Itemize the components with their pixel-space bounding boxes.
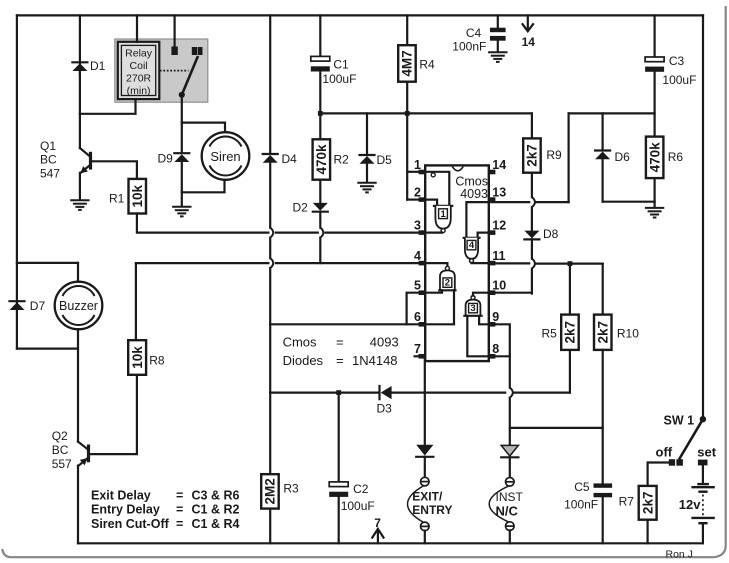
svg-text:10k: 10k [130, 346, 145, 369]
svg-text:2M2: 2M2 [263, 478, 278, 504]
svg-text:2k7: 2k7 [596, 321, 611, 344]
wire inst bottom [509, 530, 511, 543]
wire INST vertical below hop [509, 398, 511, 445]
svg-text:=: = [176, 503, 183, 517]
svg-text:C4: C4 [466, 26, 482, 40]
wire pin11 line [489, 262, 529, 264]
svg-text:D5: D5 [377, 153, 393, 167]
wire R10 top [602, 264, 604, 315]
wire right bus corner down to pin13 line [567, 113, 569, 202]
svg-text:1: 1 [414, 158, 421, 172]
svg-text:100uF: 100uF [662, 73, 696, 87]
svg-text:Siren Cut-Off: Siren Cut-Off [91, 517, 170, 531]
wire R9 bottom to hop [531, 173, 533, 197]
ground under D9 [172, 207, 191, 217]
resistor R9 box [523, 138, 541, 172]
svg-text:9: 9 [492, 310, 499, 324]
svg-text:R5: R5 [542, 326, 558, 340]
relay actuator dotted link [160, 70, 189, 72]
svg-text:D9: D9 [158, 151, 174, 165]
svg-text:Coil: Coil [130, 60, 148, 72]
svg-text:Buzzer: Buzzer [59, 299, 98, 313]
wire C1 feed [319, 15, 321, 56]
ground under Q1 [70, 200, 89, 210]
wire D2 hop to pin4 line [319, 238, 321, 264]
pin14 supply arrow [527, 15, 529, 29]
capacitor C3 [645, 57, 664, 62]
junction dot C2 top [336, 390, 341, 395]
off contact squares [669, 459, 675, 466]
bus line top y113 left [320, 112, 532, 114]
wire R5 bottom [569, 350, 571, 393]
svg-text:3: 3 [470, 303, 475, 314]
svg-text:6: 6 [414, 310, 421, 324]
wire left rail bottom corner to buzzer bottom [17, 329, 78, 348]
svg-text:set: set [697, 444, 716, 459]
svg-text:4093: 4093 [370, 334, 399, 349]
wire pin4 line from R8 corner [135, 263, 137, 340]
supply rail vertical x270 top [269, 15, 271, 153]
resistor R3 box [261, 474, 279, 508]
wire C3 feed [653, 15, 655, 57]
ground under D5 [357, 183, 376, 193]
svg-text:Q1: Q1 [40, 139, 56, 153]
svg-text:BC: BC [40, 153, 57, 167]
wire R6 bottom to ground [653, 178, 655, 207]
resistor R8 box [128, 340, 146, 375]
svg-text:13: 13 [492, 185, 506, 199]
wire coil bottom to Q1 collector [80, 99, 136, 113]
rail vertical D4 to hop1 [269, 163, 271, 228]
wire D8 down to hop over pin11 line [531, 239, 533, 258]
wire siren top link [182, 123, 225, 132]
svg-text:2k7: 2k7 [640, 492, 655, 515]
wire pin3 line segment right of rail hop [276, 232, 318, 234]
capacitor C5 [594, 483, 613, 487]
wire D5 branch [366, 113, 368, 154]
gate3 output wire to pin10 [473, 293, 489, 296]
terminal top exit [421, 477, 430, 486]
resistor R1 box [129, 179, 147, 214]
svg-text:D2: D2 [293, 201, 309, 215]
wire pin10 line [489, 292, 532, 294]
wire pin13 line [489, 201, 529, 203]
svg-text:off: off [656, 444, 673, 459]
wire pin5/pin6 bracket [407, 293, 419, 325]
relay n/c contact pair squares [192, 47, 198, 55]
svg-text:2: 2 [414, 185, 421, 199]
svg-text:10k: 10k [130, 184, 145, 207]
junction dot R5 top [568, 261, 573, 266]
pin 1 stub [419, 170, 426, 175]
diode D1 [72, 62, 87, 75]
svg-text:(min): (min) [127, 85, 151, 97]
gate1 output wire to pin3 [425, 232, 442, 234]
diode D8 [524, 231, 539, 240]
resistor R6 box [646, 137, 664, 179]
svg-text:R10: R10 [617, 326, 639, 340]
svg-text:470k: 470k [647, 142, 662, 173]
pin 7 stub [419, 354, 426, 359]
wire R7 bottom [646, 520, 648, 544]
pin 3 stub [419, 230, 426, 235]
wire bracket to pin2 [407, 199, 418, 201]
gate3 input wire from pin8 [467, 316, 489, 357]
svg-text:4093: 4093 [460, 187, 488, 201]
capacitor C1 [311, 56, 330, 61]
ground under C4 [488, 52, 507, 62]
svg-text:Diodes: Diodes [283, 353, 324, 368]
gate4 input wire from pin12 [478, 233, 489, 238]
diode inst (gray) [501, 445, 518, 457]
svg-text:C3 & R6: C3 & R6 [192, 488, 240, 502]
wire R4 feed [406, 15, 408, 45]
wire hop to D8 [531, 207, 533, 231]
svg-text:Q2: Q2 [52, 429, 68, 443]
exit loop arc [408, 486, 424, 522]
svg-text:1N4148: 1N4148 [352, 353, 398, 368]
ground under R6 [645, 208, 664, 218]
pin 10 stub [489, 290, 496, 295]
op-gate 3 NAND body (inverted) [471, 296, 475, 300]
wire R4 bottom down to pin1/2 bracket [406, 82, 408, 200]
switch SW1 pivot dot [700, 416, 706, 422]
pin 2 stub [419, 197, 426, 202]
svg-text:2k7: 2k7 [525, 144, 540, 167]
wire C2 top [338, 393, 340, 482]
diode D4 [263, 154, 278, 163]
wire D9 to ground [181, 162, 183, 206]
pin1 marker circle [431, 173, 435, 177]
gate2 output wire from pin4 [425, 263, 447, 266]
resistor R5 box [561, 315, 579, 350]
svg-text:D1: D1 [90, 59, 106, 73]
wire C4 feed [497, 15, 499, 27]
right border rail [702, 15, 704, 419]
resistor R10 box [594, 315, 612, 350]
svg-text:R2: R2 [334, 152, 350, 166]
gate1 input wire from pin2 [425, 200, 437, 206]
diode D9 [174, 153, 189, 162]
wire D8 hop to pin10 line [531, 269, 533, 294]
resistor R2 box [313, 139, 331, 179]
wire coil top feed [136, 15, 138, 41]
wire Q2 base to R8 bottom [90, 375, 137, 454]
wire D6 to R6 bottom line [601, 159, 603, 201]
hop rail over pin3 line [270, 228, 273, 238]
wire D2 down to hop [319, 212, 321, 228]
svg-text:N/C: N/C [496, 503, 519, 518]
svg-text:14: 14 [522, 35, 536, 49]
transistor Q1 emitter with arrow [80, 165, 90, 173]
svg-text:4M7: 4M7 [400, 50, 415, 76]
svg-text:270R: 270R [126, 73, 152, 85]
pin 6 stub [419, 322, 426, 327]
svg-text:100uF: 100uF [322, 72, 356, 86]
battery B1 12v [702, 465, 704, 483]
IC notch [452, 167, 463, 171]
pin 9 stub [489, 322, 496, 327]
rail vertical hop1 to hop2 [269, 238, 271, 259]
pin 11 stub [489, 261, 496, 266]
resistor R4 box [398, 45, 416, 81]
D3 line left segment [270, 392, 378, 394]
svg-text:ENTRY: ENTRY [412, 503, 452, 517]
wire pin7 drop to exit branch [420, 356, 425, 444]
capacitor C2 [329, 482, 348, 487]
wire C4 to ground [497, 41, 499, 52]
svg-text:=: = [336, 353, 344, 368]
junction dot C1/R2 [318, 111, 323, 116]
wire buzzer bottom down to Q2 [77, 349, 79, 442]
relay gray box [115, 39, 208, 102]
relay lever arm [182, 56, 198, 95]
svg-text:14: 14 [492, 158, 506, 172]
svg-text:D8: D8 [543, 227, 559, 241]
diode D3 [380, 386, 392, 399]
terminal bottom inst [506, 522, 515, 531]
svg-text:SW 1: SW 1 [664, 413, 695, 427]
wire C2 bottom [338, 497, 340, 543]
wire D7 branch top (buzzer top to left rail) [17, 262, 78, 264]
transistor Q1 collector diagonal [80, 148, 90, 157]
diode D5 [360, 155, 375, 164]
wire pin7 down [415, 355, 419, 357]
wire off contact to R7 [648, 463, 669, 486]
gate2 input wire from pin5 [425, 290, 442, 292]
svg-text:Exit Delay: Exit Delay [91, 488, 151, 502]
svg-text:10: 10 [492, 279, 506, 293]
svg-text:R8: R8 [149, 354, 165, 368]
svg-text:4: 4 [414, 249, 421, 263]
set contact square [698, 460, 708, 466]
rail vertical hop2 down to D3 line [269, 268, 271, 393]
svg-text:470k: 470k [314, 144, 329, 175]
diode D7 [10, 301, 25, 310]
svg-text:4: 4 [469, 240, 475, 251]
pin7 ground arrow [377, 532, 379, 543]
wire diode to terminal [424, 457, 426, 478]
capacitor C4 [490, 28, 506, 33]
svg-text:2: 2 [445, 278, 450, 289]
pin 5 stub [419, 290, 426, 295]
hop R9/D8 line over pin13 line [532, 197, 535, 207]
relay pivot dot [179, 92, 185, 98]
svg-text:R9: R9 [546, 148, 562, 162]
diode D6 [595, 151, 610, 160]
gate4 input wire from pin13 [466, 202, 488, 238]
wire siren bottom link [182, 180, 225, 193]
wire buzzer top [77, 263, 79, 282]
wire INST top link line [510, 427, 603, 429]
wire bracket to pin1 [407, 171, 418, 173]
svg-text:R7: R7 [619, 494, 635, 508]
wire C5 bottom [602, 497, 604, 543]
relay coil box (double border) [118, 42, 160, 99]
gate1 input wire from pin1 [425, 172, 449, 206]
buzzer circle [55, 282, 103, 330]
svg-text:=: = [336, 334, 344, 349]
svg-text:=: = [176, 517, 183, 531]
transistor Q2 collector diagonal [78, 442, 88, 450]
wire relay pivot down [181, 95, 183, 153]
svg-text:557: 557 [52, 457, 72, 471]
wire relay contact feed [174, 15, 176, 46]
svg-text:Cmos: Cmos [283, 334, 317, 349]
svg-text:Ron J: Ron J [666, 548, 693, 560]
D3 line right segment to R5 bottom [514, 392, 570, 394]
svg-text:7: 7 [374, 516, 381, 530]
wire D5 to ground [366, 164, 368, 183]
svg-text:R3: R3 [283, 481, 299, 495]
svg-text:BC: BC [52, 443, 69, 457]
wire C1 to junction [319, 72, 321, 140]
svg-text:C1 & R4: C1 & R4 [192, 517, 240, 531]
svg-text:547: 547 [40, 166, 60, 180]
terminal top inst [506, 478, 515, 487]
svg-text:3: 3 [414, 218, 421, 232]
siren circle [202, 132, 250, 180]
svg-text:R6: R6 [668, 150, 684, 164]
op-gate 2 NAND body (inverted) [445, 266, 449, 270]
bus line top y113 right segment [569, 112, 655, 114]
gate2 input wire from pin6 [425, 290, 454, 324]
gate3 input wire from pin9 [479, 316, 489, 325]
svg-text:D4: D4 [282, 152, 298, 166]
wire D6 branch [601, 113, 603, 150]
top border rail [17, 14, 703, 16]
switch SW1 lever [679, 419, 703, 459]
pin 14 stub [489, 170, 496, 175]
wire pin4 line right of rail hop [276, 262, 419, 264]
wire R3 bottom [269, 509, 271, 544]
svg-text:100nF: 100nF [452, 39, 486, 53]
svg-text:C2: C2 [353, 482, 369, 496]
inst loop arc [489, 486, 508, 522]
svg-text:Relay: Relay [125, 48, 153, 60]
left border rail [16, 15, 18, 348]
diode exit/entry (black) [416, 445, 433, 457]
wire R10 bottom down [602, 350, 604, 484]
pin 12 stub [489, 230, 496, 235]
wire C3 down to R6 [653, 72, 655, 137]
wire pin6 line [270, 323, 418, 325]
svg-text:5: 5 [414, 279, 421, 293]
wire diode to terminal [509, 457, 511, 477]
svg-text:1: 1 [440, 209, 446, 220]
svg-text:EXIT/: EXIT/ [412, 489, 443, 503]
wire R1 bottom corner to pin3 line [137, 214, 268, 233]
svg-text:R1: R1 [109, 192, 125, 206]
junction dot R4 bus [405, 111, 410, 116]
svg-text:INST: INST [496, 490, 524, 504]
transistor Q2 emitter with arrow into base [78, 458, 88, 466]
svg-text:12v: 12v [679, 497, 701, 512]
wire R3 top (rail to 2M2) [269, 393, 271, 475]
svg-text:C3: C3 [669, 54, 685, 68]
diode D2 [313, 203, 328, 212]
svg-text:C1 & R2: C1 & R2 [192, 503, 240, 517]
wire R2 to D2 [319, 180, 321, 203]
pin 13 stub [489, 197, 496, 202]
D3 line middle segment [392, 392, 506, 394]
hop INST line over D3 line [510, 388, 513, 398]
svg-text:11: 11 [492, 249, 505, 263]
svg-text:Entry Delay: Entry Delay [91, 503, 160, 517]
wire pin8/9 bracket to INST vertical [489, 324, 510, 387]
gate4 output wire to pin11 [472, 262, 489, 265]
op-gate 1 NAND body [434, 205, 452, 207]
bottom border rail [78, 542, 703, 544]
svg-text:Siren: Siren [210, 149, 240, 164]
wire D1 branch vertical [79, 15, 81, 148]
svg-text:2k7: 2k7 [563, 321, 578, 344]
svg-text:C1: C1 [333, 57, 349, 71]
wire Q1 base to R1 [92, 161, 137, 179]
svg-text:R4: R4 [419, 57, 435, 71]
wire bus to R9 corner down [531, 113, 533, 138]
wire pin3 line segment right of D2 hop [326, 232, 419, 234]
IC U1 CMOS 4093 body [425, 165, 489, 361]
svg-text:=: = [176, 488, 183, 502]
resistor R7 box [639, 486, 657, 520]
wire R5 top [569, 264, 571, 315]
hop rail over pin4 line [270, 258, 273, 268]
pin 8 stub [489, 354, 496, 359]
svg-text:7: 7 [414, 342, 421, 356]
relay fixed contact square [171, 47, 177, 56]
svg-text:D6: D6 [615, 150, 631, 164]
svg-text:8: 8 [492, 342, 499, 356]
transistor Q1 base bar [89, 152, 92, 170]
svg-text:12: 12 [492, 218, 506, 232]
wire exit bottom [424, 531, 426, 544]
svg-text:D7: D7 [30, 299, 46, 313]
pin 4 stub [419, 261, 426, 266]
svg-text:D3: D3 [377, 401, 393, 415]
hop D2 line over pin3 line [320, 228, 323, 238]
svg-text:100nF: 100nF [564, 498, 598, 512]
op-gate 4 NAND body [464, 237, 480, 239]
terminal bottom exit [421, 522, 430, 531]
transistor Q2 base bar [87, 445, 90, 463]
svg-text:100uF: 100uF [341, 499, 375, 513]
svg-text:C5: C5 [574, 480, 590, 494]
